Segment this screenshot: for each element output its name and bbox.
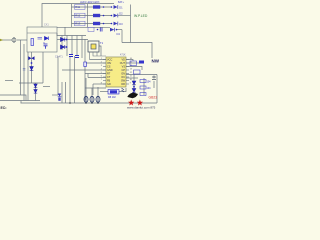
svg-text:471K: 471K: [120, 54, 126, 57]
svg-text:www.dianlut.com 875: www.dianlut.com 875: [127, 106, 156, 110]
wire ic pin5 feed: [85, 73, 106, 75]
svg-text:R11: R11: [75, 5, 80, 9]
background: [0, 0, 160, 110]
wire mid vertical B: [61, 82, 63, 103]
svg-text:EC•: EC•: [1, 106, 8, 110]
wire cap drop A: [85, 78, 87, 96]
capacitor C2: [69, 55, 73, 57]
wire cap header: [85, 87, 106, 89]
capacitor C3: [75, 56, 79, 58]
wire cap drop B: [91, 88, 93, 96]
wire ic pin1 feed: [90, 59, 107, 61]
svg-text:D1: D1: [119, 5, 123, 9]
wire left branch 3: [31, 52, 33, 83]
wire top border: [42, 4, 114, 28]
capacitor C7: [90, 96, 94, 103]
diode D1: [45, 37, 49, 41]
LED row 3: [72, 21, 124, 26]
EMI filter box: [27, 27, 57, 52]
wire LED right bus: [130, 5, 132, 43]
svg-text:D4: D4: [117, 32, 121, 36]
stamp star 2: [137, 100, 143, 106]
wire br comp column: [143, 78, 145, 95]
svg-text:BAT+: BAT+: [118, 1, 124, 4]
junction dot bus A: [85, 102, 87, 104]
wire diode D4 out: [65, 46, 67, 48]
svg-text:LED1 LED2 LED3: LED1 LED2 LED3: [80, 1, 100, 4]
wire ic right pin6: [126, 77, 138, 79]
svg-text:W.P.LED: W.P.LED: [134, 14, 148, 18]
resistor R8: [108, 90, 119, 100]
resistor R12b: [140, 93, 146, 96]
wire AC line top: [0, 39, 12, 41]
wire AC neutral vertical: [20, 40, 22, 95]
label right box: [130, 61, 137, 66]
diode D8: [132, 89, 136, 93]
wire mid vertical C: [69, 56, 71, 103]
wire right border: [156, 75, 158, 104]
wire bottom vertical stub: [20, 101, 22, 104]
wire transformer right out: [99, 46, 101, 56]
resistor R4 row4: [88, 27, 94, 31]
U1 pin names left: [107, 58, 113, 86]
wire bottom bus long: [21, 102, 158, 104]
wire right feed: [122, 43, 152, 59]
wire right cross drop: [153, 81, 155, 88]
wire ic right pin2: [126, 62, 140, 64]
wire ic pin3 feed: [88, 77, 106, 79]
wire LED array left bus: [71, 4, 73, 27]
junction dot row4: [97, 29, 99, 31]
wire ic pin6 feed: [92, 84, 94, 95]
wire primary drop C: [71, 36, 73, 55]
wire bottom left diode drop A: [35, 83, 37, 101]
LED D4 row4: [110, 28, 120, 36]
stamp star 1: [128, 100, 134, 106]
wire bottom bus main: [0, 100, 40, 102]
junction dot bus B: [91, 102, 93, 104]
svg-text:NW: NW: [152, 59, 160, 64]
svg-text:R13: R13: [75, 22, 81, 26]
wire primary drop D: [76, 36, 78, 56]
LED row 2: [72, 12, 131, 18]
resistor R9: [140, 80, 151, 84]
diode D3: [61, 38, 65, 42]
wire x65 drop: [64, 27, 66, 35]
capacitor CX1: [31, 39, 34, 46]
junction dot bus C: [97, 102, 99, 104]
fuse F1: [12, 37, 16, 43]
inductor L1: [38, 38, 43, 40]
U1 pin stubs right: [126, 60, 129, 85]
LED D6: [52, 94, 61, 101]
U1 pin numbers: [101, 58, 133, 85]
svg-text:CX1: CX1: [44, 24, 49, 27]
wire cap drop C: [97, 87, 99, 96]
svg-text:D2: D2: [119, 12, 123, 16]
wire fuse to box: [17, 39, 27, 41]
op-amp U1: [106, 57, 126, 87]
wire snubber rail: [57, 33, 86, 36]
junction dot bus D: [69, 102, 71, 104]
wire LED anode bus: [87, 4, 89, 27]
svg-text:D3: D3: [119, 22, 123, 26]
wire left branch 1: [23, 44, 25, 101]
svg-text:104: 104: [147, 81, 152, 84]
wire left branch 2: [27, 52, 29, 101]
U1 pin names right: [120, 58, 126, 86]
capacitor C5 ticks: [23, 69, 26, 71]
connector arrow ACL: [0, 39, 3, 41]
U1 pin stubs left: [103, 60, 106, 85]
wire primary drop B: [66, 36, 68, 57]
capacitor C1: [44, 42, 48, 49]
wire transformer left: [84, 39, 86, 101]
junction dot D: [133, 86, 135, 88]
svg-text:GD: GD: [107, 83, 111, 86]
wire ic pin2 feed: [85, 62, 106, 64]
transformer secondary stubs: [90, 52, 107, 60]
svg-text:GB23: GB23: [149, 96, 158, 100]
svg-text:DR: DR: [121, 83, 125, 86]
wire ic right pin3: [126, 67, 142, 71]
capacitor C9: [122, 88, 125, 92]
resistor R10: [140, 86, 151, 90]
svg-text:C3 471: C3 471: [55, 56, 63, 59]
capacitor C6: [84, 96, 88, 103]
wire rectifier out: [65, 39, 88, 41]
LED row 1: [72, 5, 124, 10]
diode D9: [34, 84, 37, 88]
wire row4 feed: [57, 26, 110, 28]
wire left lower rail: [19, 82, 43, 84]
label right box2: [134, 70, 141, 74]
diode D10: [34, 90, 37, 94]
wire box out: [57, 39, 61, 41]
capacitor C4 row4: [100, 28, 102, 32]
junction dot B: [66, 46, 68, 48]
wire under ic left: [100, 91, 108, 93]
wire right box drop: [133, 74, 135, 80]
wire primary drop E: [81, 36, 83, 59]
wire stub x43: [43, 86, 50, 88]
wire under ic right: [119, 88, 126, 92]
wire left dash: [5, 80, 13, 82]
logo blob: [128, 93, 139, 99]
transformer T1: [88, 41, 99, 52]
junction dot C: [31, 62, 33, 64]
wire ic right pin5: [126, 74, 157, 76]
wire br diode column: [133, 80, 135, 92]
svg-text:R12: R12: [75, 14, 81, 18]
capacitor C8: [96, 96, 100, 103]
wire LED cathode bus: [121, 30, 123, 43]
wire row4 out: [117, 29, 122, 31]
junction dot A: [66, 39, 68, 41]
wire mid vertical A: [57, 56, 59, 95]
resistor R5: [84, 62, 87, 67]
wire AC line bottom: [0, 95, 26, 101]
resistor right small: [139, 61, 144, 64]
wire primary drop A: [61, 36, 63, 51]
wire ic pin4 feed: [62, 69, 106, 71]
diode D7: [132, 81, 136, 85]
wire ic right pin wires: [126, 60, 133, 62]
svg-text:R8 102: R8 102: [108, 96, 116, 99]
svg-text:104: 104: [147, 87, 152, 90]
varistor RV1: [28, 56, 34, 60]
capacitor C10: [152, 76, 156, 80]
wire ic pin8 feed: [93, 83, 106, 85]
diode D5: [30, 67, 34, 71]
diode D4: [61, 45, 65, 49]
